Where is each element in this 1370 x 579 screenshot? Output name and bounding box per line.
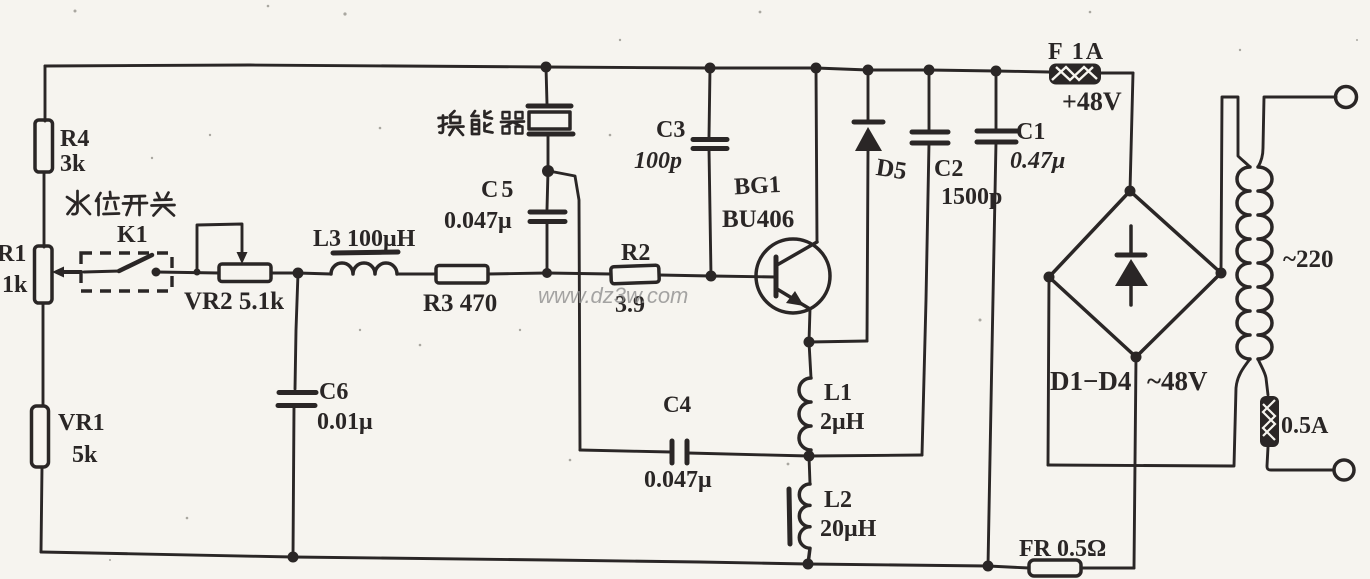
node emitter / D5 return (804, 337, 815, 348)
svg-text:BU406: BU406 (722, 206, 794, 233)
svg-text:0.5A: 0.5A (1281, 413, 1329, 439)
svg-text:L3 100μH: L3 100μH (313, 226, 416, 252)
svg-text:~220: ~220 (1283, 246, 1334, 273)
potentiometer R1 body (35, 246, 53, 303)
node L2 bottom rail (803, 559, 814, 570)
wire top rail (45, 65, 1049, 72)
wire bridge bottom to rail (through FR corner) (1134, 357, 1136, 568)
wire transducer to C5 node (547, 134, 550, 170)
wire corner down to bridge top (1130, 73, 1133, 191)
svg-text:0.01μ: 0.01μ (317, 409, 373, 435)
svg-text:BG1: BG1 (733, 172, 781, 200)
wire primary bottom lead to fuse (1258, 359, 1268, 395)
svg-text:D5: D5 (874, 154, 908, 185)
svg-text:+48V: +48V (1062, 87, 1122, 116)
label qi char 3 (501, 112, 524, 134)
node top rail / D5 (863, 65, 874, 76)
svg-text:R4: R4 (60, 126, 89, 152)
transducer (ultrasonic) top plate (528, 104, 571, 109)
svg-text:2μH: 2μH (820, 409, 865, 435)
wire C6 to bottom rail (293, 406, 294, 557)
capacitor C4 (580, 450, 671, 452)
terminal bottom (mains) (1334, 460, 1354, 480)
wire rail to C3 (709, 68, 710, 137)
svg-text:www.dz3w.com: www.dz3w.com (538, 283, 688, 308)
wire node to L3 (298, 273, 331, 274)
node bottom rail / C1 (983, 561, 994, 572)
svg-text:1500p: 1500p (941, 184, 1002, 210)
svg-text:5k: 5k (72, 442, 98, 468)
wire R1 to VR1 (42, 303, 45, 406)
wire rail to transducer (546, 67, 547, 104)
wire rail to C2 (928, 70, 931, 130)
node bridge right vertex (1216, 268, 1227, 279)
transistor BG1 emitter (777, 289, 810, 309)
resistor R4 (35, 120, 53, 172)
wire C5 node to R2 (547, 273, 611, 274)
node bridge top vertex (1125, 186, 1136, 197)
potentiometer VR1 body (32, 406, 49, 467)
node top rail / C1 (991, 66, 1002, 77)
node L1/L2/C4/C2 (804, 451, 815, 462)
node main line / C6 junction (293, 268, 304, 279)
svg-text:R3 470: R3 470 (423, 290, 497, 317)
switch K1 dashed enclosure (81, 253, 172, 291)
label kai char 3 (123, 196, 147, 215)
svg-text:L2: L2 (824, 487, 852, 513)
svg-text:R1: R1 (0, 241, 26, 267)
fuse F 1A body (1049, 64, 1101, 85)
wire emitter node to D5 bottom (809, 341, 867, 342)
inductor L3 (331, 263, 397, 274)
wire primary top lead (1258, 97, 1336, 167)
switch K1 contacts and arm (84, 271, 120, 272)
node top rail / transducer (541, 62, 552, 73)
bridge internal diode symbol (1129, 226, 1133, 253)
wire emitter node to L1 (809, 342, 811, 378)
wire up to secondary winding bottom (1234, 359, 1250, 466)
wire bridge right vertex up and over (1221, 97, 1250, 273)
capacitor C5 (530, 210, 565, 215)
R1 wiper arrow (60, 270, 81, 274)
node bridge bottom vertex (1131, 352, 1142, 363)
svg-text:K1: K1 (117, 222, 148, 248)
transistor BG1 base bar (774, 257, 779, 296)
wire bottom rail (41, 552, 1029, 568)
wire R2 to C3 node (659, 275, 711, 276)
resistor FR (1029, 560, 1081, 576)
svg-text:0.047μ: 0.047μ (644, 467, 712, 493)
L3 label underline (333, 252, 398, 253)
svg-text:100p: 100p (634, 148, 682, 174)
wire secondary bottom return (1048, 465, 1233, 466)
transistor BG1 collector (777, 242, 817, 265)
label wei char 2 (96, 192, 119, 215)
bridge rectifier D1-D4 diamond (1049, 191, 1221, 357)
wire fuse 0.5A to terminal (1267, 447, 1334, 470)
svg-text:0.047μ: 0.047μ (444, 208, 512, 234)
wire C5 to main line (546, 222, 549, 273)
fuse 0.5A body (1260, 396, 1279, 447)
svg-text:L1: L1 (824, 380, 852, 406)
node C5 top / C4 branch (542, 165, 554, 177)
svg-text:VR1: VR1 (58, 410, 105, 436)
node top rail / C3 (705, 63, 716, 74)
terminal top (mains) (1336, 87, 1357, 108)
svg-text:F 1A: F 1A (1048, 39, 1105, 65)
wire branch to C4 (down at x580) (549, 171, 580, 450)
wire VR2 to node (271, 272, 298, 275)
svg-text:20μH: 20μH (820, 516, 877, 542)
label huan (transducer) char 1 (439, 111, 464, 135)
wire C3 to base node (709, 149, 711, 276)
resistor R2 (611, 265, 660, 284)
wire bridge left vertex down (1048, 277, 1049, 465)
capacitor C3 (693, 137, 727, 142)
inductor L1 (799, 378, 811, 456)
wire C1 down to bottom rail (988, 142, 996, 566)
node top rail / collector (811, 63, 822, 74)
node bridge left vertex (1044, 272, 1055, 283)
transducer bottom plate (529, 132, 573, 137)
wire R4 to R1 (43, 172, 46, 247)
wire R3 to C5 node (488, 273, 547, 274)
capacitor C1 (977, 129, 1017, 134)
svg-text:C6: C6 (319, 379, 348, 405)
wire VR1 to bottom rail (41, 467, 42, 552)
svg-text:R2: R2 (621, 240, 650, 266)
node C5 / main line (542, 268, 552, 278)
svg-text:FR 0.5Ω: FR 0.5Ω (1019, 536, 1106, 562)
label guan char 4 (152, 193, 175, 216)
wire collector to rail (816, 68, 817, 242)
capacitor C6 (279, 390, 316, 395)
wire FR to corner (1081, 567, 1134, 570)
label neng char 2 (472, 111, 493, 134)
svg-text:0.47μ: 0.47μ (1010, 148, 1065, 174)
wire base lead (711, 276, 776, 277)
inductor L2 (809, 456, 810, 484)
node top rail / C2 (924, 65, 935, 76)
transistor BG1 emitter arrow (786, 291, 804, 306)
node C3 / base junction (706, 271, 717, 282)
svg-text:VR2 5.1k: VR2 5.1k (184, 288, 284, 315)
diode D5 (867, 70, 870, 120)
transducer body box (529, 112, 570, 129)
wire L3 to R3 (397, 273, 436, 276)
svg-text:3k: 3k (60, 151, 86, 177)
wire rail to C1 (995, 71, 998, 129)
inductor L2 core bar (789, 489, 790, 544)
wire fuse to corner (1101, 72, 1133, 75)
transistor BG1 circle (756, 239, 830, 313)
label shui (water level switch) char 1 (67, 191, 90, 214)
svg-text:C1: C1 (1016, 119, 1045, 145)
resistor R3 (436, 266, 488, 284)
capacitor C2 (912, 130, 948, 135)
wire node to C5 (547, 171, 548, 209)
rheostat VR2 body (219, 264, 271, 282)
wire C2 down to L1-L2 node line (922, 143, 929, 455)
transformer primary winding (1258, 167, 1272, 359)
svg-text:C5: C5 (481, 177, 516, 203)
wire C6 branch down (295, 273, 298, 389)
svg-text:C4: C4 (663, 392, 692, 417)
svg-text:1k: 1k (2, 272, 28, 298)
wire K1 to VR2 (156, 272, 219, 273)
wire left edge top (rail to R4) (44, 66, 47, 121)
node VR2 wiper tap (194, 269, 201, 276)
svg-text:C2: C2 (934, 156, 963, 182)
node C6 bottom rail (288, 552, 299, 563)
rheostat VR2 wiper loop (197, 224, 242, 272)
transformer secondary winding (1237, 167, 1250, 359)
wire node to C2 return (809, 455, 922, 456)
svg-text:D1−D4: D1−D4 (1050, 366, 1131, 396)
wire emitter down (809, 309, 810, 342)
svg-text:~48V: ~48V (1147, 366, 1208, 396)
svg-text:C3: C3 (656, 117, 685, 143)
